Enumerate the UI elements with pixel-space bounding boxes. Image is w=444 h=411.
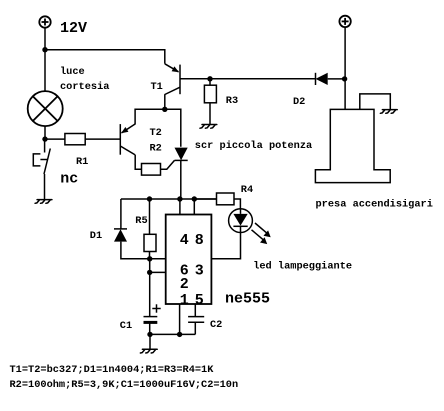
wire 12V terminal to node A [44,28,46,50]
wire socket shell to ground [360,94,391,110]
svg-text:R1: R1 [76,156,88,168]
wire pin 1 [179,304,181,334]
LED light arrow 1 [255,223,271,237]
lamp luce cortesia [28,91,63,126]
push-button switch nc [33,139,50,174]
svg-text:T1: T1 [151,81,163,93]
resistor R1 [65,134,85,145]
diode D1 [114,229,127,242]
presa accendisigari socket body [315,109,390,182]
wire R1 to T2 base [85,138,120,140]
svg-text:R4: R4 [241,184,253,196]
svg-text:2: 2 [180,276,189,293]
resistor R4 [217,193,235,205]
resistor R3 [204,85,216,103]
capacitor C1 polarity + [152,304,160,312]
wire node E to socket [344,79,346,110]
wire R4 to LED anode [234,199,240,209]
SCR (scr piccola potenza) [175,148,188,161]
wire C2 bottom [194,322,196,334]
wire node K to pin1 / C2 [150,333,195,335]
node C junction (T1 collector) [162,107,167,112]
svg-text:T2: T2 [150,127,162,139]
node G junction (SCR/pin4) [177,196,182,201]
wire node A to lamp [44,50,46,91]
wire SCR cathode to bus [180,160,182,199]
wire R2 to SCR gate [161,160,175,169]
wire node J to pin 2 [150,271,166,273]
svg-text:R2: R2 [150,142,162,154]
IC ne555 [166,215,212,305]
svg-text:8: 8 [195,232,204,249]
node K junction (ground node) [147,332,152,337]
svg-text:3: 3 [195,263,204,280]
transistor T2 (PNP bc327) [120,124,135,155]
wire pin 8 [193,199,195,215]
svg-text:cortesia: cortesia [60,81,109,93]
node I junction (pin6) [147,256,152,261]
capacitor C2 [188,317,204,323]
LED led lampeggiante [229,209,253,233]
wire T2 collector to R2 [135,155,141,169]
node F junction (R5 top) [147,196,152,201]
wire LED cathode to pin 3 [211,233,240,259]
svg-text:R5: R5 [135,215,147,227]
svg-text:C2: C2 [210,319,222,331]
wire switch to ground [44,174,46,200]
wire node B to R1 [45,138,65,140]
wire node I to node J [149,259,151,273]
svg-text:R3: R3 [226,95,238,107]
svg-text:T1=T2=bc327;D1=1n4004;R1=R3=R4: T1=T2=bc327;D1=1n4004;R1=R3=R4=1K [10,364,215,376]
transistor T1 (PNP bc327) [165,64,180,95]
node H junction (pin8/R4) [192,196,197,201]
wire node J to C1 [149,272,151,316]
svg-text:ne555: ne555 [225,291,270,308]
wire node C to T2 emitter [135,109,165,124]
wire R3 to ground [209,103,211,125]
node D junction (T1 base / R3) [207,76,212,81]
svg-text:D1: D1 [90,230,102,242]
wire T1 base to D2 [180,78,316,80]
diode D2 [316,73,328,85]
wire node F to R5 [149,199,151,234]
label luce cortesia [60,66,109,93]
resistor R2 [142,164,161,176]
resistor R5 [144,234,156,251]
ground (switch) [35,200,52,204]
wire node K to ground [149,334,151,349]
wire node I to pin 6 [150,258,166,260]
wire node D to R3 [209,79,211,85]
wire node A to T1 emitter [45,50,165,64]
ground (socket) [380,110,397,114]
svg-text:luce: luce [60,66,85,78]
node L junction (pin1) [177,332,182,337]
wire D1 anode to node I [121,242,150,259]
wire right terminal to node E [344,27,346,79]
wire T1 collector down [164,94,166,109]
wire C1 to node K [149,322,151,334]
svg-text:D2: D2 [293,96,305,108]
power supply +12V terminal right [339,16,350,27]
wire bus to R4 [194,198,216,200]
svg-text:5: 5 [195,292,204,309]
svg-text:C1: C1 [120,320,132,332]
wire node C to SCR anode [165,109,181,147]
ground (main) [140,349,157,353]
wire bus to D1 cathode [120,199,122,229]
power supply +12V terminal left [39,16,50,27]
capacitor C1 [144,317,158,323]
ground (R3) [200,125,217,129]
node A junction [42,47,47,52]
wire lamp to node B [44,126,46,139]
node J junction (pin2) [147,270,152,275]
svg-text:12V: 12V [60,20,87,37]
svg-text:led lampeggiante: led lampeggiante [253,261,352,273]
svg-text:scr piccola potenza: scr piccola potenza [195,140,312,152]
LED light arrow 2 [252,230,268,244]
svg-text:nc: nc [60,170,78,187]
node E junction [342,76,347,81]
svg-text:4: 4 [180,232,189,249]
svg-text:1: 1 [180,292,189,309]
wire R5 to node I [149,252,151,259]
bus wire (SCR cathode / supply rail of 555) [121,198,217,200]
wire pin 5 to C2 [194,304,196,317]
wire pin 4 [179,199,181,215]
node B junction [42,136,47,141]
svg-text:presa accendisigari: presa accendisigari [316,198,433,210]
wire D2 to node E [328,78,345,80]
svg-text:R2=100ohm;R5=3,9K;C1=1000uF16V: R2=100ohm;R5=3,9K;C1=1000uF16V;C2=10n [10,379,239,391]
